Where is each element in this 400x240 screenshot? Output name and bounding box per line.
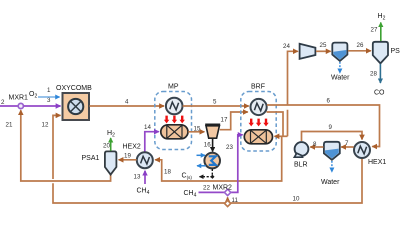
junction node 11 — [225, 200, 231, 206]
node water arrowhead V1 — [329, 168, 334, 173]
wire stream 8 drum to blower — [310, 146, 323, 148]
wire stream 9 blower to HEX1 — [302, 132, 363, 142]
unit box MP — [155, 92, 192, 150]
svg-text:18: 18 — [164, 169, 171, 176]
svg-text:3: 3 — [47, 97, 51, 104]
compressor K1 — [300, 44, 316, 59]
wire stream 22 CH4 to MXR2 — [199, 191, 225, 193]
wire BRF heater outlet to reactor — [267, 112, 283, 136]
svg-text:OXYCOMB: OXYCOMB — [56, 85, 92, 92]
wire stream 11 branch to MXR2 — [227, 197, 229, 200]
svg-text:H2: H2 — [107, 130, 115, 139]
reactor BRF — [244, 130, 272, 144]
svg-text:MXR1: MXR1 — [9, 95, 29, 102]
wire stream 24 riser to compressor — [288, 51, 298, 136]
svg-text:C(s): C(s) — [182, 173, 193, 180]
svg-text:24: 24 — [283, 43, 290, 50]
wire stream 16 cyclone to carbon cooler — [212, 139, 214, 152]
separator PSA1 — [105, 151, 117, 174]
wire stream 6 BRF heater to HEX1 — [267, 105, 380, 147]
wire stream 28 CO product — [379, 64, 381, 83]
flash drum V1 (bottom) — [324, 142, 340, 160]
svg-text:5: 5 — [213, 99, 217, 106]
wire stream 23 MXR2 to BRF reactor — [230, 135, 242, 193]
wire cooling water in (blue) — [197, 154, 206, 156]
wire stream 17 cyclone to BRF heater — [220, 112, 248, 130]
node port dot cooler bottom — [210, 175, 214, 179]
svg-text:1: 1 — [47, 87, 51, 94]
wire stream 10 recycle main line — [53, 158, 362, 203]
svg-text:7: 7 — [345, 140, 349, 147]
svg-text:BRF: BRF — [251, 84, 265, 91]
svg-text:26: 26 — [357, 42, 364, 49]
wire stream 18 BRF reactor to HEX2 — [155, 137, 282, 181]
mixer MXR2 — [224, 189, 230, 195]
svg-text:25: 25 — [320, 42, 327, 49]
svg-text:16: 16 — [204, 142, 211, 149]
blower BLR — [294, 142, 308, 157]
svg-text:11: 11 — [232, 197, 239, 204]
combustor OXYCOMB — [63, 93, 90, 120]
svg-text:PSA1: PSA1 — [82, 155, 100, 162]
wire stream 25 compressor to flash drum — [316, 50, 331, 52]
svg-text:O2: O2 — [29, 91, 37, 100]
node water arrowhead V2 — [337, 69, 342, 74]
svg-text:PSA2: PSA2 — [391, 48, 400, 55]
svg-text:19: 19 — [124, 153, 131, 160]
wire stream 4 OXYCOMB to MP heater — [90, 105, 165, 107]
wire stream 21 PSA1 tail to MXR1 — [21, 110, 111, 181]
heater BRF (circle zigzag) — [251, 99, 267, 115]
separator PSA2 — [373, 42, 388, 64]
svg-text:CO: CO — [374, 90, 385, 97]
wire water drain drum V1 — [331, 161, 333, 168]
svg-text:6: 6 — [327, 98, 331, 105]
svg-text:15: 15 — [194, 125, 201, 132]
wire stream 13 CH4 feed to HEX2 — [144, 171, 146, 184]
wire stream 3 MXR1 to OXYCOMB — [24, 105, 61, 107]
heat exchanger HEX1 — [354, 142, 370, 158]
wire cooling water out (blue) — [197, 165, 206, 167]
svg-text:MP: MP — [168, 84, 179, 91]
wire stream 2 into MXR1 — [0, 105, 18, 107]
svg-text:12: 12 — [42, 122, 49, 129]
unit box BRF — [241, 92, 276, 152]
wire stream 27 H2 product — [380, 23, 382, 42]
svg-text:HEX2: HEX2 — [123, 144, 141, 151]
heat arrows red MP — [164, 116, 185, 124]
svg-text:20: 20 — [103, 143, 110, 150]
svg-text:Water: Water — [331, 75, 350, 82]
flash drum V2 (top) — [332, 43, 347, 61]
svg-text:8: 8 — [313, 141, 317, 148]
svg-text:9: 9 — [329, 124, 333, 131]
reactor MP (plug flow) — [161, 125, 188, 139]
wire reactor feed elbow — [275, 135, 288, 137]
svg-text:2: 2 — [1, 99, 5, 106]
wire stream 20 H2 from PSA1 — [110, 138, 112, 151]
svg-text:10: 10 — [293, 196, 300, 203]
svg-text:CH4: CH4 — [137, 188, 150, 197]
wire stream 7 HEX1 to flash drum — [341, 146, 353, 148]
heater MP (circle zigzag) — [166, 98, 183, 115]
wire stream 14 HEX2 to MP reactor — [145, 132, 159, 153]
heat exchanger HEX2 — [137, 152, 153, 168]
wire stream 12 riser into OXYCOMB — [53, 115, 61, 179]
cyclone separator — [205, 124, 220, 139]
carbon cooler (solids cooler) — [204, 153, 220, 169]
svg-text:21: 21 — [6, 122, 13, 129]
mixer MXR1 — [18, 103, 23, 108]
svg-text:14: 14 — [144, 124, 151, 131]
svg-text:17: 17 — [221, 117, 228, 124]
wire carbon product C(s) — [200, 169, 213, 177]
svg-text:MXR2: MXR2 — [213, 185, 233, 192]
svg-text:28: 28 — [370, 71, 377, 78]
svg-text:H2: H2 — [378, 13, 386, 22]
svg-text:HEX1: HEX1 — [368, 159, 386, 166]
wire stream 1 O2 feed — [38, 96, 60, 98]
svg-text:Water: Water — [321, 179, 340, 186]
svg-text:13: 13 — [134, 174, 141, 181]
svg-text:23: 23 — [226, 144, 233, 151]
svg-text:CH4: CH4 — [184, 190, 197, 199]
wire water drain drum V2 — [339, 62, 341, 69]
wire stream 15 MP reactor to cyclone — [188, 131, 204, 133]
svg-text:22: 22 — [203, 185, 210, 192]
svg-text:4: 4 — [125, 99, 129, 106]
svg-text:27: 27 — [371, 27, 378, 34]
svg-text:BLR: BLR — [294, 162, 308, 169]
wire stream 5 MP heater to BRF heater — [183, 105, 249, 107]
wire stream 26 drum to PSA2 — [348, 50, 371, 52]
heat arrows red BRF — [249, 119, 269, 127]
wire stream 19 HEX2 to PSA1 — [119, 159, 137, 161]
